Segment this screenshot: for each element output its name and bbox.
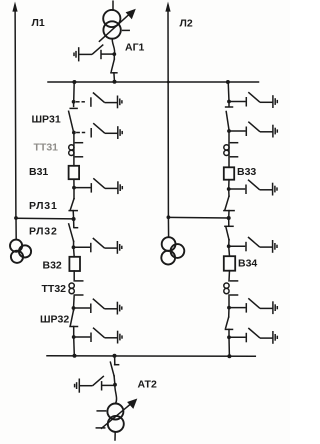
svg-text:РЛ31: РЛ31 xyxy=(29,200,58,212)
svg-text:В32: В32 xyxy=(43,260,62,272)
svg-text:ТТ32: ТТ32 xyxy=(42,283,67,295)
svg-text:АТ2: АТ2 xyxy=(138,379,157,391)
svg-text:АГ1: АГ1 xyxy=(125,42,145,54)
svg-text:В33: В33 xyxy=(237,166,256,178)
svg-text:ШР31: ШР31 xyxy=(32,114,61,126)
svg-text:Л1: Л1 xyxy=(32,17,45,29)
svg-text:РЛ32: РЛ32 xyxy=(29,226,58,238)
svg-text:ШР32: ШР32 xyxy=(40,314,69,326)
svg-text:Л2: Л2 xyxy=(180,18,193,30)
svg-text:В34: В34 xyxy=(238,258,257,270)
svg-text:ТТ31: ТТ31 xyxy=(34,142,59,154)
svg-text:В31: В31 xyxy=(29,166,48,178)
